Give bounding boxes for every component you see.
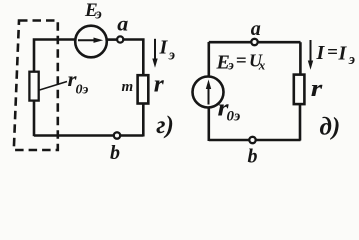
svg-text:э: э bbox=[348, 52, 355, 68]
svg-text:э: э bbox=[227, 59, 234, 74]
svg-text:I: I bbox=[159, 37, 169, 59]
svg-text:=: = bbox=[236, 51, 247, 72]
svg-text:э: э bbox=[168, 48, 175, 64]
svg-text:b: b bbox=[248, 146, 258, 168]
resistor r (right circuit) bbox=[294, 75, 305, 105]
EMF source Eэ circle bbox=[75, 26, 107, 58]
svg-text:a: a bbox=[251, 16, 261, 40]
svg-text:I: I bbox=[316, 42, 326, 64]
resistor r0э bbox=[29, 72, 38, 101]
svg-text:г): г) bbox=[156, 112, 174, 139]
wire: EMF to terminal a bbox=[107, 38, 118, 41]
svg-text:I: I bbox=[338, 43, 348, 65]
wire: resistor r down to bottom rail bbox=[142, 104, 145, 137]
wire: left side down to EMF (right circuit) bbox=[208, 42, 211, 78]
svg-text:r: r bbox=[311, 76, 323, 102]
terminal b (left circuit) bbox=[114, 132, 120, 138]
svg-text:э: э bbox=[95, 6, 102, 22]
svg-text:r: r bbox=[154, 72, 165, 98]
top rail (right circuit) bbox=[209, 41, 301, 44]
svg-text:д): д) bbox=[320, 114, 341, 141]
bottom rail (left circuit) bbox=[34, 134, 143, 137]
wire: right side down to resistor r (right circuit) bbox=[299, 42, 302, 74]
svg-text:b: b bbox=[110, 142, 120, 164]
current arrow Iэ bbox=[154, 39, 156, 60]
svg-text:x: x bbox=[258, 58, 266, 73]
EMF source Eэ=Ux circle (right circuit) bbox=[193, 77, 224, 108]
dashed equivalent-generator box bbox=[14, 21, 58, 151]
wire: resistor r down to bottom rail (right circuit) bbox=[299, 104, 302, 140]
terminal a (right circuit) bbox=[251, 39, 257, 45]
current arrow I=Iэ bbox=[310, 40, 312, 62]
wire: r0э top lead up and right to EMF Eэ bbox=[34, 40, 76, 73]
terminal a (left circuit) bbox=[117, 36, 123, 42]
bottom rail (right circuit) bbox=[209, 139, 301, 142]
svg-text:0э: 0э bbox=[76, 83, 89, 98]
svg-text:=: = bbox=[327, 42, 338, 63]
resistor r (load, left circuit) bbox=[138, 75, 149, 103]
wire: EMF down to bottom rail (right circuit) bbox=[208, 107, 211, 141]
wire: terminal a right then down to resistor r bbox=[124, 40, 144, 76]
wire: r0э bottom lead down to bottom rail bbox=[33, 101, 36, 137]
terminal b (right circuit) bbox=[249, 137, 255, 143]
EMF arrow (pointing up) bbox=[208, 89, 210, 105]
leader line to r0э label bbox=[40, 82, 68, 91]
svg-text:a: a bbox=[117, 12, 128, 36]
svg-text:m: m bbox=[122, 79, 134, 95]
EMF Eэ arrow (pointing right) bbox=[78, 39, 95, 41]
svg-text:0э: 0э bbox=[227, 109, 241, 125]
